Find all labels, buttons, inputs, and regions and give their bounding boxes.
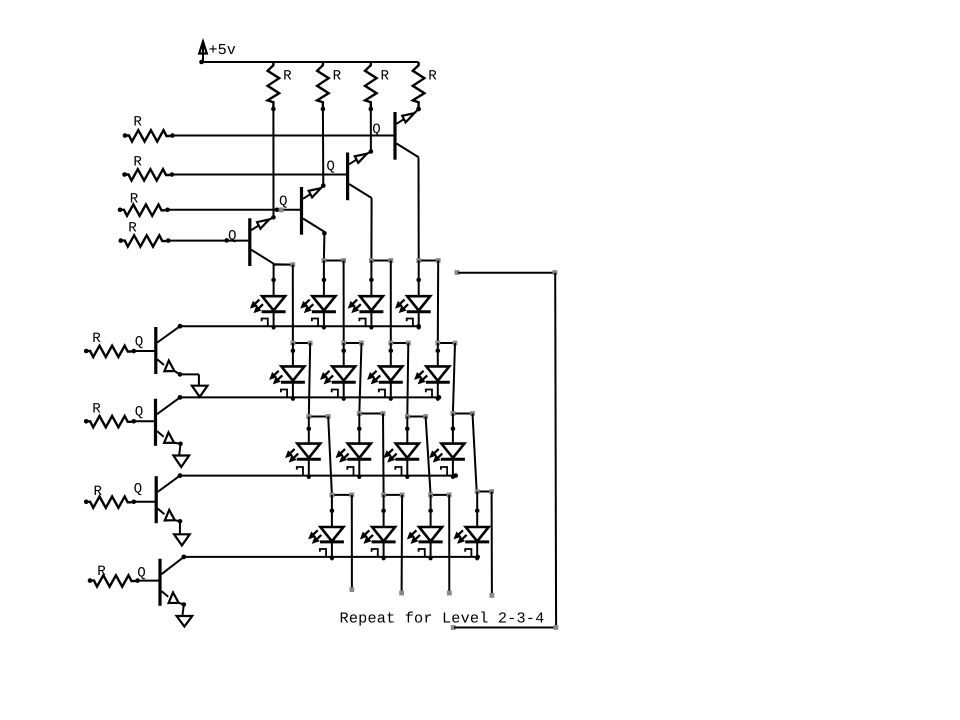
- wire bus row4 col3 down: [447, 495, 452, 595]
- wire bus row4 col2 down: [399, 495, 404, 595]
- wire row 1 cathode line: [178, 324, 421, 329]
- wire Q7 emitter to ground: [179, 521, 181, 534]
- LED D5: [270, 343, 305, 401]
- node A24 jog wire: [435, 341, 457, 346]
- svg-text:R: R: [92, 331, 101, 347]
- wire bus row1 col4 down: [437, 261, 439, 344]
- resistor R1: [268, 62, 280, 111]
- wire R8 to Q1 base: [168, 240, 250, 242]
- LED D10: [336, 414, 371, 479]
- wire row 2 cathode line: [178, 395, 442, 400]
- svg-text:+5v: +5v: [209, 41, 236, 59]
- transistor Q2 (PNP): [302, 183, 326, 234]
- wire R3 to Q3 emitter (node col3): [370, 109, 372, 152]
- node A11 jog wire: [274, 262, 296, 267]
- resistor R8: [119, 235, 171, 246]
- svg-text:R: R: [92, 402, 101, 418]
- svg-text:Q: Q: [134, 482, 143, 498]
- node A14 jog wire: [416, 258, 440, 263]
- wire to next level (bottom): [451, 625, 559, 630]
- wire R10 to Q6 base: [134, 420, 156, 422]
- resistor R7: [118, 205, 170, 216]
- LED D2: [301, 261, 336, 330]
- LED D15: [407, 495, 442, 560]
- LED D9: [286, 417, 321, 479]
- svg-text:R: R: [283, 69, 292, 85]
- wire Q5 emitter to ground: [180, 374, 199, 385]
- wire R2 to Q2 emitter (node col2): [322, 109, 324, 186]
- svg-text:Q: Q: [135, 334, 144, 350]
- wire R12 to Q8 base: [138, 580, 161, 582]
- node A42 jog wire: [381, 493, 404, 498]
- ground G2: [173, 456, 189, 468]
- wire bus row4 col1 down: [350, 495, 355, 592]
- node A32 jog wire: [357, 411, 386, 416]
- wire bus row1 col3 down: [390, 261, 392, 344]
- resistor R11: [84, 497, 136, 508]
- transistor Q8 (NPN): [160, 555, 186, 607]
- svg-text:Q: Q: [228, 229, 237, 245]
- resistor R3: [365, 62, 377, 111]
- wire row 3 cathode line: [178, 473, 458, 478]
- LED D3: [348, 261, 383, 330]
- transistor Q6 (NPN): [156, 395, 183, 446]
- resistor R10: [84, 416, 136, 427]
- power +5v symbol: [199, 42, 207, 65]
- node A12 jog wire: [322, 258, 347, 263]
- wire R5 to Q4 base: [173, 135, 396, 137]
- node A33 jog wire: [405, 414, 428, 419]
- LED D6: [321, 343, 356, 401]
- wire bus row3 col2 down: [382, 414, 385, 495]
- node A23 jog wire: [388, 341, 410, 346]
- resistor R6: [122, 169, 174, 180]
- wire bus row2 col4 down: [453, 343, 455, 414]
- wire bus row3 col3 down: [426, 417, 431, 495]
- wire bus row1 col2 down: [343, 261, 345, 344]
- resistor R12: [88, 575, 140, 586]
- wire R1 to Q1 emitter (node col1): [272, 109, 274, 217]
- svg-text:R: R: [381, 69, 390, 85]
- svg-text:R: R: [333, 69, 342, 85]
- junction on Q1 base wire: [224, 238, 229, 243]
- node A31 jog wire: [306, 414, 330, 419]
- resistor R5: [123, 130, 175, 141]
- LED D8: [415, 343, 450, 401]
- node A34 jog wire: [451, 411, 475, 416]
- wire bus row2 col2 down: [359, 343, 361, 414]
- wire Q4 collector drop: [418, 158, 420, 261]
- wire bus row4 col4 down: [490, 492, 495, 598]
- LED D14: [360, 495, 395, 560]
- wire R11 to Q7 base: [134, 501, 156, 503]
- wire row 4 cathode line: [182, 555, 481, 560]
- wire bus row3 col1 down: [328, 417, 332, 495]
- transistor Q5 (NPN): [156, 324, 183, 377]
- svg-text:R: R: [94, 484, 103, 500]
- LED D16: [454, 492, 489, 561]
- svg-text:Q: Q: [326, 159, 335, 175]
- junction + grip on Q2 base wire: [275, 208, 284, 213]
- resistor R2: [317, 62, 329, 111]
- wire R7 to Q2 base: [168, 209, 302, 211]
- transistor Q7 (NPN): [156, 473, 182, 523]
- wire to next level (vertical): [554, 273, 557, 628]
- transistor Q1 (PNP): [250, 215, 276, 266]
- wire +5V rail: [201, 61, 419, 63]
- wire Q1 collector to row1 node A1: [274, 264, 291, 266]
- wire bus row3 col4 down: [473, 414, 477, 492]
- wire Q6 emitter to ground: [179, 444, 180, 456]
- transistor Q4 (PNP): [395, 107, 421, 160]
- wire to next level (top): [455, 270, 558, 275]
- svg-text:Repeat for Level 2-3-4: Repeat for Level 2-3-4: [340, 610, 545, 628]
- ground G3: [174, 534, 190, 545]
- wire Q8 emitter to ground: [182, 605, 183, 617]
- wire Q3 collector drop: [370, 198, 372, 261]
- svg-text:R: R: [128, 221, 137, 237]
- resistor R9: [84, 346, 136, 357]
- ground G1: [192, 386, 208, 397]
- svg-text:Q: Q: [135, 405, 144, 421]
- ground G4: [177, 616, 193, 627]
- node A44 jog wire: [475, 489, 494, 494]
- wire R9 to Q5 base: [134, 350, 156, 352]
- LED D13: [309, 495, 344, 560]
- wire Q2 collector drop: [322, 231, 327, 261]
- node A21 jog wire: [291, 341, 313, 346]
- node A22 jog wire: [341, 341, 364, 346]
- node A13 jog wire: [369, 258, 393, 263]
- svg-text:R: R: [133, 154, 142, 170]
- resistor R4: [413, 62, 425, 111]
- LED D1: [250, 265, 285, 330]
- svg-text:R: R: [428, 69, 437, 85]
- svg-text:R: R: [97, 564, 106, 580]
- LED D7: [368, 343, 403, 401]
- LED D4: [396, 261, 431, 330]
- wire bus row2 col3 down: [407, 343, 408, 417]
- node A41 jog wire: [330, 493, 355, 498]
- svg-text:R: R: [133, 115, 142, 131]
- node A43 jog wire: [428, 493, 451, 498]
- svg-text:R: R: [130, 191, 139, 207]
- LED D12: [430, 414, 465, 479]
- LED D11: [384, 417, 419, 479]
- transistor Q3 (PNP): [348, 149, 374, 200]
- wire bus row2 col1 down: [309, 343, 310, 417]
- wire R6 to Q3 base: [172, 174, 348, 176]
- wire bus row1 col1 down: [292, 265, 294, 343]
